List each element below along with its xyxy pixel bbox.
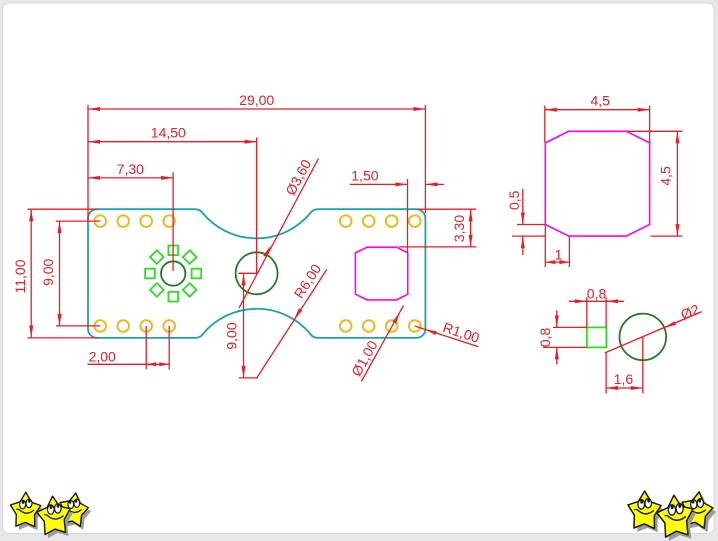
svg-text:14,50: 14,50 [151, 125, 186, 141]
svg-text:7,30: 7,30 [117, 161, 144, 177]
svg-text:9,00: 9,00 [224, 322, 240, 349]
svg-text:11,00: 11,00 [12, 259, 28, 293]
svg-text:9,00: 9,00 [40, 258, 56, 285]
svg-text:1,6: 1,6 [614, 371, 634, 387]
svg-text:29,00: 29,00 [239, 92, 274, 108]
svg-text:1: 1 [555, 247, 563, 263]
svg-text:4,5: 4,5 [657, 166, 673, 186]
svg-text:2,00: 2,00 [89, 348, 116, 364]
svg-text:1,50: 1,50 [351, 167, 378, 183]
svg-text:0,8: 0,8 [587, 285, 607, 301]
svg-text:4,5: 4,5 [590, 93, 610, 109]
svg-text:0,8: 0,8 [537, 327, 553, 347]
svg-text:0,5: 0,5 [506, 190, 522, 210]
svg-text:3,30: 3,30 [451, 215, 467, 242]
